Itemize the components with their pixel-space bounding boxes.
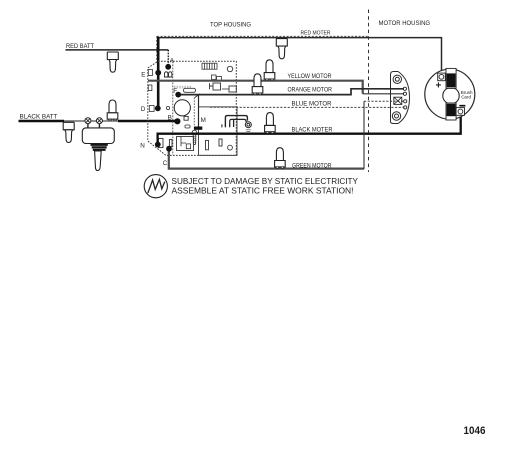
svg-text:E: E bbox=[141, 71, 145, 78]
connector on orange motor wire bbox=[252, 74, 263, 95]
small resistor below bbox=[185, 125, 190, 128]
left rail box near D bbox=[149, 106, 154, 112]
lower board tall capacitor bbox=[158, 138, 163, 147]
svg-text:BLACK BATT: BLACK BATT bbox=[20, 115, 58, 121]
connector on green motor wire bbox=[275, 148, 286, 169]
motor connector plate bbox=[391, 72, 410, 124]
connector on yellow motor wire bbox=[264, 60, 275, 81]
fuse clips near E bbox=[165, 72, 168, 77]
board hole top right bbox=[227, 66, 232, 71]
node D bbox=[155, 105, 161, 111]
brush top bbox=[446, 68, 456, 88]
small square below capacitor bbox=[184, 116, 188, 120]
wire BLACK MOTOR bbox=[158, 115, 461, 145]
svg-text:M: M bbox=[201, 117, 206, 124]
svg-text:+: + bbox=[436, 81, 442, 92]
node A bbox=[165, 64, 171, 70]
svg-text:ORANGE MOTOR: ORANGE MOTOR bbox=[288, 88, 333, 94]
svg-text:TOP HOUSING: TOP HOUSING bbox=[210, 22, 251, 29]
screw below M bbox=[192, 130, 197, 134]
node N bbox=[155, 142, 161, 148]
wire lead from orange wire to M bbox=[195, 94, 200, 98]
wire black battery lead bbox=[19, 120, 65, 122]
brush bottom terminal bbox=[456, 108, 464, 116]
lower board bar 1 bbox=[169, 140, 172, 147]
left rail box mid bbox=[148, 85, 152, 91]
lower board small rect bbox=[219, 139, 222, 146]
lower board bar 2 bbox=[206, 140, 209, 149]
motor shaft hole bbox=[443, 88, 459, 104]
capacitor small pair bbox=[212, 75, 217, 80]
wire thick vertical from red motor line to E and D bbox=[157, 37, 160, 108]
motor housing dashed boundary bbox=[368, 10, 370, 173]
grommet screw bbox=[245, 122, 251, 128]
circuit board outer outline bbox=[148, 61, 237, 155]
lower board hole bbox=[228, 145, 233, 150]
svg-text:F: F bbox=[173, 88, 177, 95]
switch terminal 2 bbox=[96, 118, 102, 124]
wire YELLOW MOTOR bbox=[148, 81, 363, 94]
circuit board inner left rail bbox=[172, 62, 174, 156]
wire RED MOTER (to motor + brush) bbox=[158, 38, 441, 74]
toggle switch body bbox=[82, 128, 114, 144]
minus sign bbox=[459, 105, 465, 107]
small circle right of D bbox=[166, 106, 169, 109]
fuse holder on red battery lead bbox=[107, 52, 118, 72]
relay component with lead bbox=[213, 83, 221, 90]
wire ORANGE MOTOR bbox=[178, 89, 404, 95]
connector above black battery lead bbox=[107, 100, 118, 121]
static warning symbol bbox=[144, 175, 167, 198]
svg-text:YELLOW MOTOR: YELLOW MOTOR bbox=[288, 74, 333, 80]
node F bbox=[175, 92, 181, 98]
brush top terminal bbox=[438, 73, 446, 81]
top housing dashed boundary bbox=[157, 35, 369, 37]
svg-text:GREEN MOTOR: GREEN MOTOR bbox=[292, 163, 332, 169]
svg-text:BLACK MOTER: BLACK MOTER bbox=[292, 127, 334, 133]
resistor R1 bbox=[184, 88, 196, 92]
board mid dotted traces bbox=[174, 86, 192, 88]
switch terminal 1 bbox=[85, 118, 91, 124]
switch threaded collar bbox=[91, 144, 108, 151]
fuse holder on black battery lead bbox=[63, 122, 74, 142]
svg-text:BLUE MOTOR: BLUE MOTOR bbox=[292, 101, 333, 107]
wire green to pin 3 (dotted) bbox=[364, 100, 404, 102]
svg-text:ASSEMBLE AT STATIC FREE WORK S: ASSEMBLE AT STATIC FREE WORK STATION! bbox=[172, 186, 354, 195]
svg-text:MOTOR HOUSING: MOTOR HOUSING bbox=[379, 20, 431, 27]
svg-text:SUBJECT TO DAMAGE BY STATIC EL: SUBJECT TO DAMAGE BY STATIC ELECTRICITY bbox=[172, 177, 359, 186]
svg-text:D: D bbox=[141, 106, 146, 113]
motor end cap U1 bbox=[425, 69, 475, 119]
wire GREEN MOTOR bbox=[169, 149, 364, 169]
left rail box near E bbox=[148, 70, 152, 76]
connector on black motor wire bbox=[265, 113, 276, 134]
node B bbox=[174, 118, 180, 124]
svg-text:Card: Card bbox=[461, 95, 471, 100]
node E bbox=[155, 70, 161, 76]
svg-text:1046: 1046 bbox=[464, 425, 486, 437]
lower board component box bbox=[177, 137, 194, 151]
svg-text:RED BATT: RED BATT bbox=[66, 44, 94, 50]
svg-text:N: N bbox=[140, 142, 145, 149]
capacitor C1 big circle bbox=[174, 100, 190, 116]
terminal M black post bbox=[194, 127, 202, 130]
connector on red motor wire bbox=[276, 39, 287, 59]
svg-text:C: C bbox=[163, 160, 168, 167]
diode box on right edge bbox=[229, 86, 236, 92]
connector J1 jumper staples bbox=[222, 116, 248, 128]
wire BLUE MOTOR (dashed) bbox=[210, 106, 404, 108]
switch lever bbox=[95, 151, 102, 171]
svg-text:B: B bbox=[168, 115, 172, 122]
pin header component bbox=[202, 63, 217, 69]
brush bottom bbox=[446, 103, 456, 120]
wire red battery lead bbox=[66, 49, 169, 51]
wire drop to node A (dotted) bbox=[167, 50, 169, 65]
circuit board lower-right module outline bbox=[199, 107, 238, 155]
node C bbox=[166, 146, 172, 152]
svg-text:RED MOTER: RED MOTER bbox=[301, 31, 331, 37]
